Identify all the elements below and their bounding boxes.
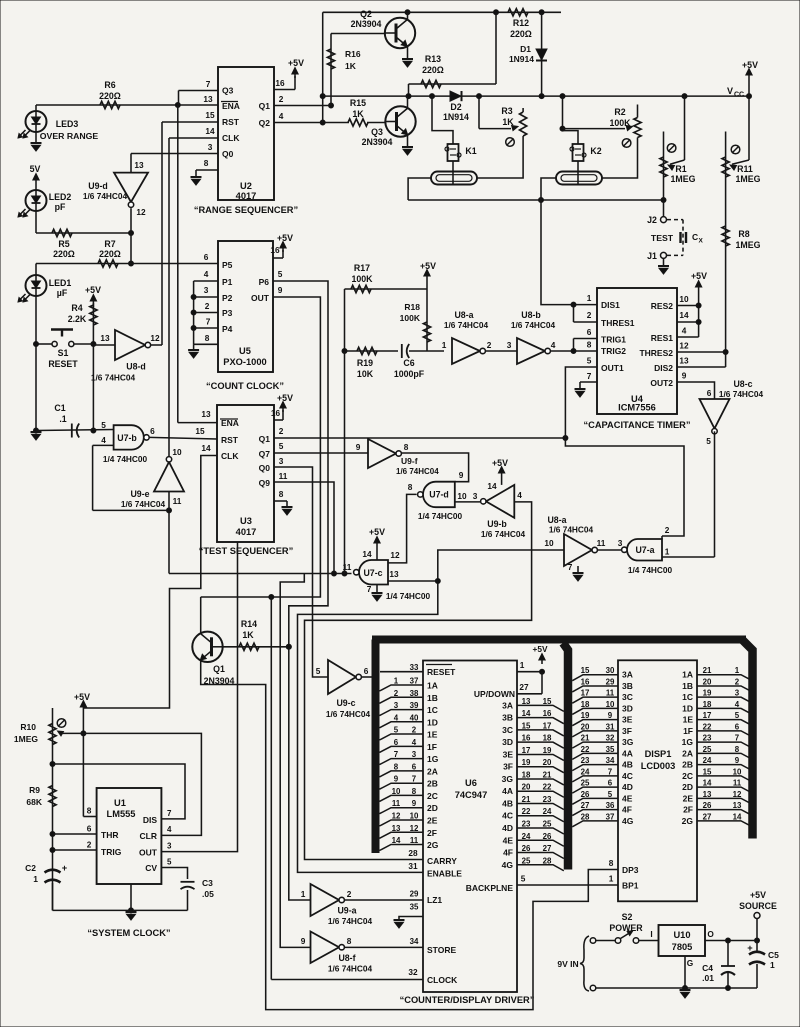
- svg-text:10: 10: [392, 787, 401, 796]
- svg-text:3: 3: [167, 842, 172, 851]
- svg-text:9: 9: [301, 936, 306, 946]
- svg-text:LZ1: LZ1: [427, 895, 442, 905]
- wire U3 pin8 ground: [274, 501, 287, 506]
- svg-text:THR: THR: [101, 830, 118, 840]
- svg-text:8: 8: [87, 806, 92, 816]
- svg-text:V: V: [727, 86, 733, 96]
- svg-text:4: 4: [394, 713, 399, 722]
- svg-text:18: 18: [522, 770, 531, 779]
- svg-text:29: 29: [606, 677, 615, 686]
- wire K1 contact right to R3: [477, 136, 523, 178]
- svg-text:1: 1: [442, 340, 447, 350]
- label U8-e 74HC04: [549, 525, 594, 535]
- potentiometer R3: [479, 96, 527, 146]
- svg-text:6: 6: [587, 327, 592, 337]
- svg-text:4: 4: [412, 738, 417, 747]
- regulator U10 7805: [659, 925, 715, 968]
- relay K2 contact: [556, 161, 602, 185]
- svg-text:18: 18: [581, 700, 590, 709]
- svg-text:1MEG: 1MEG: [736, 174, 761, 184]
- ground U4 pin7: [575, 389, 586, 397]
- svg-text:Q3: Q3: [371, 127, 383, 137]
- svg-text:24: 24: [522, 832, 531, 841]
- LED3: [18, 105, 98, 142]
- wire U6 pin1 +5V and UP/DOWN: [517, 644, 548, 694]
- svg-text:CLR: CLR: [140, 831, 157, 841]
- svg-text:R13: R13: [425, 54, 441, 64]
- svg-text:CARRY: CARRY: [427, 856, 457, 866]
- svg-text:U9-d: U9-d: [88, 181, 108, 191]
- wire U8-b out to U4 TRIG: [551, 350, 574, 352]
- svg-text:2: 2: [87, 840, 92, 850]
- svg-text:11: 11: [392, 799, 401, 808]
- svg-text:37: 37: [410, 677, 419, 686]
- ground U8-e: [568, 562, 584, 581]
- svg-text:35: 35: [410, 903, 419, 912]
- svg-text:U8-d: U8-d: [126, 362, 146, 372]
- svg-text:U7-d: U7-d: [429, 490, 449, 500]
- wire K2 contact right to R2: [602, 138, 638, 179]
- inverter U9-f: [356, 439, 440, 476]
- wire U7-b pin4 loop: [93, 445, 172, 513]
- svg-text:RESET: RESET: [427, 667, 456, 677]
- svg-text:13: 13: [134, 160, 144, 170]
- svg-text:30: 30: [606, 666, 615, 675]
- svg-text:220Ω: 220Ω: [53, 249, 75, 259]
- svg-text:J1: J1: [647, 251, 657, 261]
- transistor Q1: [192, 632, 234, 686]
- svg-text:1K: 1K: [345, 61, 357, 71]
- svg-text:1/6 74HC04: 1/6 74HC04: [481, 529, 526, 539]
- +5V R4: [85, 285, 101, 307]
- caption COUNTER DISPLAY DRIVER: [400, 995, 535, 1005]
- svg-text:34: 34: [606, 756, 615, 765]
- bus bar top: [372, 636, 746, 644]
- wire U2 Q1 row: [274, 103, 334, 108]
- svg-text:TRIG2: TRIG2: [601, 346, 626, 356]
- svg-text:+5V: +5V: [742, 60, 758, 70]
- svg-text:6: 6: [150, 426, 155, 436]
- svg-text:15: 15: [205, 110, 215, 120]
- capacitor C3: [181, 878, 215, 910]
- svg-text:12: 12: [392, 812, 401, 821]
- svg-text:28: 28: [408, 848, 418, 858]
- svg-text:3D: 3D: [622, 703, 633, 713]
- svg-text:16: 16: [543, 709, 552, 718]
- potentiometer R10: [14, 708, 83, 910]
- wire U8-c output to U7-a pin1: [714, 431, 716, 557]
- svg-text:22: 22: [522, 807, 531, 816]
- svg-text:U9-e: U9-e: [130, 489, 149, 499]
- svg-text:8: 8: [412, 787, 417, 796]
- wire U3 Q0 net to U9-c: [274, 467, 328, 677]
- ground U10: [680, 990, 691, 998]
- svg-text:11: 11: [173, 496, 182, 506]
- svg-text:7: 7: [394, 750, 399, 759]
- svg-text:+5V: +5V: [691, 271, 707, 281]
- svg-text:7: 7: [608, 767, 613, 776]
- svg-text:17: 17: [581, 689, 590, 698]
- inverter U8-f: [301, 932, 373, 974]
- svg-text:U7-a: U7-a: [635, 545, 654, 555]
- svg-text:.01: .01: [702, 973, 714, 983]
- svg-text:6: 6: [204, 252, 209, 262]
- caption RANGE SEQUENCER: [194, 205, 298, 215]
- svg-text:23: 23: [581, 756, 590, 765]
- svg-text:6: 6: [87, 824, 92, 834]
- 9V IN terminals: [557, 936, 595, 991]
- wire U8-e input net to U6 ENABLE: [298, 538, 565, 872]
- connector J1: [647, 251, 666, 265]
- wire U4 RES2 row: [677, 305, 699, 307]
- wire R7 row to U5 P5: [36, 252, 218, 264]
- svg-text:R14: R14: [241, 619, 257, 629]
- svg-text:U10: U10: [673, 930, 690, 940]
- svg-text:U7-b: U7-b: [117, 433, 137, 443]
- wire Q2 emitter: [407, 47, 409, 59]
- svg-text:1A: 1A: [427, 681, 438, 691]
- wire U1 TRIG row: [53, 849, 97, 851]
- wire U1 THR row: [53, 833, 97, 835]
- svg-text:5: 5: [608, 790, 613, 799]
- IC U5 PXO-1000 COUNT CLOCK: [204, 241, 283, 372]
- svg-text:RST: RST: [222, 117, 240, 127]
- transistor Q3: [362, 106, 416, 147]
- svg-text:“COUNTER/DISPLAY DRIVER”: “COUNTER/DISPLAY DRIVER”: [400, 995, 535, 1005]
- svg-text:1/6 74HC04: 1/6 74HC04: [511, 320, 556, 330]
- svg-text:C4: C4: [702, 963, 713, 973]
- svg-text:7: 7: [735, 734, 740, 743]
- svg-text:3: 3: [473, 491, 478, 501]
- resistor R14: [223, 619, 292, 650]
- svg-text:LM555: LM555: [107, 809, 136, 819]
- svg-text:8: 8: [587, 340, 592, 350]
- svg-text:4: 4: [167, 825, 172, 834]
- resistor R5: [52, 229, 75, 259]
- svg-text:R4: R4: [71, 303, 82, 313]
- svg-text:2C: 2C: [682, 771, 693, 781]
- svg-text:5: 5: [394, 726, 399, 735]
- svg-text:9: 9: [278, 285, 283, 295]
- wire Q3 collector: [407, 96, 409, 108]
- svg-text:16: 16: [522, 734, 531, 743]
- svg-text:R18: R18: [404, 302, 420, 312]
- svg-text:220Ω: 220Ω: [422, 65, 444, 75]
- +5V U1: [74, 692, 90, 817]
- svg-text:14: 14: [392, 836, 401, 845]
- ground Q2: [402, 59, 413, 67]
- svg-text:1/6 74HC04: 1/6 74HC04: [396, 467, 439, 476]
- svg-text:15: 15: [522, 721, 531, 730]
- svg-text:4E: 4E: [622, 793, 633, 803]
- svg-text:3G: 3G: [502, 774, 514, 784]
- svg-text:14: 14: [362, 549, 372, 559]
- svg-text:G: G: [687, 958, 693, 968]
- IC U1 LM555 SYSTEM CLOCK: [87, 788, 172, 884]
- svg-text:PXO-1000: PXO-1000: [223, 357, 266, 367]
- +5V U4 RES: [691, 271, 707, 337]
- svg-text:1K: 1K: [502, 117, 514, 127]
- svg-text:+5V: +5V: [85, 285, 101, 295]
- ground Q3: [402, 147, 413, 155]
- svg-text:10: 10: [544, 538, 554, 548]
- svg-text:4: 4: [735, 700, 740, 709]
- svg-text:9: 9: [608, 711, 613, 720]
- svg-text:6: 6: [735, 722, 740, 731]
- svg-text:R11: R11: [737, 164, 753, 174]
- svg-text:S2: S2: [622, 912, 633, 922]
- wire U4 RES1 row: [677, 336, 699, 338]
- svg-text:4: 4: [279, 111, 284, 121]
- svg-text:3E: 3E: [622, 715, 633, 725]
- svg-text:1F: 1F: [427, 742, 437, 752]
- svg-text:1/6 74HC04: 1/6 74HC04: [444, 320, 489, 330]
- svg-text:35: 35: [606, 745, 615, 754]
- svg-text:11: 11: [733, 779, 742, 788]
- svg-text:R2: R2: [614, 107, 625, 117]
- potentiometer R2: [563, 105, 642, 148]
- svg-text:12: 12: [150, 333, 160, 343]
- svg-text:Q1: Q1: [259, 434, 271, 444]
- wire LED2 to R5: [36, 211, 134, 236]
- caption TEST SEQUENCER: [199, 546, 294, 556]
- ground U1: [126, 912, 137, 920]
- svg-text:3C: 3C: [502, 725, 513, 735]
- svg-text:U3: U3: [240, 516, 252, 526]
- svg-text:RESET: RESET: [48, 359, 78, 369]
- wire U7-d output to U7-c pin12: [388, 494, 417, 563]
- svg-text:3G: 3G: [622, 737, 634, 747]
- svg-text:14: 14: [679, 310, 689, 320]
- svg-text:U9-a: U9-a: [337, 906, 356, 916]
- wire U9-d output: [129, 208, 134, 266]
- inverter U8-c: [700, 379, 764, 446]
- svg-text:S1: S1: [58, 348, 69, 358]
- NAND U7-d: [408, 482, 478, 521]
- wire top rail drop left: [320, 12, 325, 122]
- svg-text:4A: 4A: [622, 748, 633, 758]
- svg-text:4017: 4017: [236, 191, 257, 201]
- svg-text:ENABLE: ENABLE: [427, 869, 462, 879]
- svg-text:8: 8: [279, 489, 284, 499]
- LED1: [18, 264, 71, 303]
- svg-text:31: 31: [408, 861, 418, 871]
- svg-text:17: 17: [543, 721, 552, 730]
- wire U3 Q7 row to U9-f: [274, 452, 368, 454]
- svg-text:1D: 1D: [427, 717, 438, 727]
- svg-text:1/6 74HC04: 1/6 74HC04: [83, 191, 128, 201]
- svg-text:22: 22: [703, 722, 712, 731]
- svg-text:13: 13: [389, 569, 399, 579]
- svg-text:C6: C6: [403, 358, 414, 368]
- svg-text:.1: .1: [59, 414, 66, 424]
- svg-text:26: 26: [581, 790, 590, 799]
- svg-text:21: 21: [703, 666, 712, 675]
- svg-text:3D: 3D: [502, 737, 513, 747]
- svg-text:5: 5: [101, 420, 106, 430]
- svg-text:26: 26: [522, 844, 531, 853]
- svg-text:4017: 4017: [236, 527, 257, 537]
- svg-text:1C: 1C: [682, 692, 693, 702]
- ground U5 pin8: [188, 350, 199, 358]
- svg-text:29: 29: [410, 890, 419, 899]
- svg-text:16: 16: [581, 677, 590, 686]
- bus bar DISP1 right: [742, 640, 753, 839]
- resistor R12: [508, 9, 532, 39]
- wire U6 right pin rows to display bus: [517, 705, 564, 870]
- svg-text:10: 10: [679, 294, 689, 304]
- svg-text:U5: U5: [239, 346, 251, 356]
- resistor R4: [68, 303, 97, 433]
- svg-text:1/6 74HC04: 1/6 74HC04: [121, 499, 166, 509]
- svg-text:20: 20: [581, 722, 590, 731]
- wire U6 pin35 ground: [399, 917, 423, 920]
- svg-text:6: 6: [608, 779, 613, 788]
- svg-text:10: 10: [172, 447, 182, 457]
- svg-text:Q0: Q0: [259, 463, 271, 473]
- svg-text:1E: 1E: [427, 730, 438, 740]
- svg-text:RST: RST: [221, 435, 239, 445]
- svg-text:33: 33: [410, 663, 419, 672]
- svg-text:31: 31: [606, 722, 615, 731]
- svg-text:+5V: +5V: [277, 393, 293, 403]
- ground U7-c pin7: [367, 584, 431, 601]
- svg-text:+5V: +5V: [277, 233, 293, 243]
- inverter U9-d: [83, 160, 148, 217]
- svg-text:R9: R9: [29, 785, 40, 795]
- wire U1 pin8: [83, 816, 96, 818]
- svg-text:Q1: Q1: [259, 101, 271, 111]
- svg-text:7: 7: [412, 775, 417, 784]
- svg-text:13: 13: [201, 409, 211, 419]
- svg-text:RES1: RES1: [651, 333, 673, 343]
- +5V U2 pin16: [274, 58, 304, 90]
- switch S1 RESET: [36, 330, 93, 370]
- svg-text:9: 9: [682, 371, 687, 381]
- svg-text:3: 3: [412, 750, 417, 759]
- svg-text:DIS2: DIS2: [654, 363, 673, 373]
- svg-text:18: 18: [703, 700, 712, 709]
- svg-text:3A: 3A: [502, 700, 513, 710]
- svg-text:CLK: CLK: [222, 133, 240, 143]
- svg-text:12: 12: [136, 207, 146, 217]
- svg-text:ENA: ENA: [222, 101, 240, 111]
- svg-text:+: +: [62, 863, 68, 873]
- svg-text:19: 19: [543, 746, 552, 755]
- resistor R13: [409, 12, 497, 96]
- wire U5 OUT net: [201, 297, 321, 600]
- svg-text:11: 11: [410, 836, 419, 845]
- svg-text:14: 14: [522, 709, 531, 718]
- svg-text:4D: 4D: [622, 782, 633, 792]
- svg-text:3B: 3B: [622, 681, 633, 691]
- svg-text:1E: 1E: [683, 715, 694, 725]
- inverter U9-a: [301, 884, 373, 926]
- svg-text:4F: 4F: [503, 848, 513, 858]
- wire U10 ground leg: [683, 956, 688, 991]
- svg-text:16: 16: [275, 78, 285, 88]
- svg-text:2F: 2F: [683, 805, 693, 815]
- svg-text:POWER: POWER: [609, 923, 643, 933]
- svg-text:100K: 100K: [609, 118, 631, 128]
- svg-text:1/6 74HC04: 1/6 74HC04: [719, 389, 764, 399]
- svg-text:17: 17: [522, 746, 531, 755]
- svg-text:X: X: [699, 238, 704, 245]
- svg-text:13: 13: [679, 356, 689, 366]
- svg-text:R17: R17: [354, 263, 370, 273]
- svg-text:4: 4: [517, 490, 522, 500]
- pin labels LZ1 STORE CLOCK rows: [410, 856, 463, 985]
- svg-text:OUT1: OUT1: [601, 363, 624, 373]
- svg-text:R8: R8: [738, 229, 749, 239]
- svg-text:13: 13: [733, 801, 742, 810]
- wire K contact rail to U4 DIS1: [541, 200, 574, 305]
- svg-text:25: 25: [703, 745, 712, 754]
- svg-text:19: 19: [522, 758, 531, 767]
- wire DISP1 left pin rows: [572, 675, 618, 827]
- bus bar U6 left: [372, 640, 380, 854]
- svg-text:4B: 4B: [502, 798, 513, 808]
- svg-text:14: 14: [201, 443, 211, 453]
- wire Q3 emitter: [407, 135, 409, 146]
- wire U2 ENA vertical to U3: [178, 105, 217, 423]
- svg-text:21: 21: [522, 795, 531, 804]
- svg-text:3: 3: [208, 142, 213, 152]
- wire Q1 emitter to DP3 loop: [201, 660, 618, 1009]
- svg-text:1/4 74HC00: 1/4 74HC00: [103, 454, 148, 464]
- wire U8-d output to U2 RST: [151, 122, 218, 345]
- svg-text:R5: R5: [58, 239, 69, 249]
- svg-text:+: +: [747, 943, 753, 953]
- svg-text:6: 6: [394, 738, 399, 747]
- svg-text:2: 2: [279, 426, 284, 436]
- svg-text:R19: R19: [357, 358, 373, 368]
- inverter U8-b: [511, 310, 556, 364]
- svg-text:5: 5: [706, 436, 711, 446]
- svg-text:R7: R7: [104, 239, 115, 249]
- svg-text:DP3: DP3: [622, 865, 639, 875]
- svg-text:6: 6: [707, 388, 712, 398]
- NAND U7-a: [622, 539, 673, 575]
- wire U2 Q2 row to R15: [274, 120, 349, 125]
- svg-text:C5: C5: [768, 950, 779, 960]
- svg-text:OUT: OUT: [139, 848, 158, 858]
- svg-text:CV: CV: [145, 863, 157, 873]
- svg-text:6: 6: [412, 762, 417, 771]
- wire U9-e input net: [168, 492, 170, 574]
- wire S1 to U8-d input: [93, 344, 115, 346]
- svg-text:1N914: 1N914: [443, 112, 469, 122]
- svg-text:4: 4: [682, 326, 687, 336]
- inverter U8-a: [442, 310, 492, 364]
- svg-text:+5V: +5V: [74, 692, 90, 702]
- svg-text:+5V: +5V: [420, 261, 436, 271]
- inverter U9-c: [316, 660, 371, 719]
- svg-text:36: 36: [606, 801, 615, 810]
- svg-text:D2: D2: [450, 102, 461, 112]
- svg-text:27: 27: [519, 682, 529, 692]
- svg-text:27: 27: [581, 801, 590, 810]
- wire U3 CLK net: [83, 443, 217, 708]
- wire U8-e to U7-a: [597, 538, 624, 550]
- svg-text:16: 16: [270, 245, 280, 255]
- svg-text:4G: 4G: [502, 860, 514, 870]
- potentiometer R1: [660, 96, 696, 200]
- svg-text:1C: 1C: [427, 705, 438, 715]
- svg-text:U6: U6: [465, 778, 477, 788]
- svg-text:DIS: DIS: [143, 815, 158, 825]
- svg-text:R10: R10: [20, 722, 36, 732]
